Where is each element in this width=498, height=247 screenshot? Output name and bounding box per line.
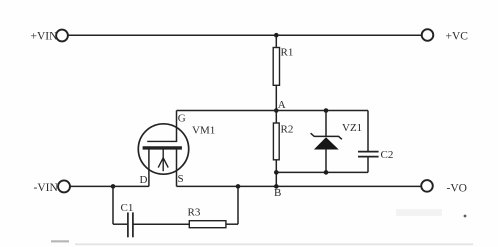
wire source lead	[176, 149, 178, 187]
svg-text:R3: R3	[188, 206, 201, 218]
svg-text:-VIN: -VIN	[34, 182, 59, 194]
wire C2 bottom lead	[367, 157, 369, 173]
caption remnant streak	[75, 243, 473, 245]
node A	[274, 108, 279, 113]
svg-text:-VO: -VO	[447, 182, 467, 194]
junction C1 branch	[111, 184, 116, 189]
svg-text:C2: C2	[381, 149, 394, 161]
wire R1 top lead	[275, 35, 277, 47]
capacitor C1	[128, 212, 133, 237]
svg-text:B: B	[274, 187, 281, 199]
wire C2 top lead	[367, 111, 369, 152]
zener VZ1 cathode bar	[311, 133, 342, 139]
wire C1 branch down	[112, 186, 114, 224]
wire gate rail	[177, 110, 369, 112]
svg-text:D: D	[140, 174, 148, 186]
resistor R3	[189, 221, 226, 228]
junction zener rail left	[274, 170, 279, 175]
svg-text:S: S	[178, 173, 184, 185]
svg-text:VM1: VM1	[192, 125, 215, 137]
wire R2 bottom lead	[275, 160, 277, 187]
wire top rail right	[276, 34, 421, 36]
terminal +VC	[422, 29, 434, 41]
svg-text:VZ1: VZ1	[342, 122, 362, 134]
wire C1 left lead	[113, 223, 127, 225]
svg-text:R2: R2	[281, 124, 294, 136]
wire R3 right lead	[226, 223, 238, 225]
svg-text:R1: R1	[281, 47, 294, 59]
wire gate lead	[176, 111, 178, 142]
junction VZ1 bottom	[324, 170, 329, 175]
transistor VM1 gate plate	[147, 140, 177, 142]
wire C1 to R3	[134, 223, 190, 225]
junction top rail / R1	[274, 33, 279, 38]
svg-text:A: A	[278, 99, 286, 111]
wire zener rail	[276, 171, 368, 173]
resistor R1	[273, 48, 279, 86]
node B	[274, 184, 279, 189]
caption remnant dash	[51, 240, 69, 242]
terminal -VO	[421, 180, 433, 192]
junction VZ1 top	[324, 108, 329, 113]
transistor VM1 body	[138, 124, 188, 174]
wire drain lead	[148, 149, 150, 187]
wire R1 bottom lead	[275, 85, 277, 110]
wire R3 branch up	[237, 186, 239, 224]
capacitor C2	[358, 152, 379, 157]
terminal +VIN	[56, 30, 68, 42]
svg-text:+VIN: +VIN	[31, 31, 59, 43]
transistor VM1 substrate arrow	[158, 149, 168, 171]
speck artifact	[464, 215, 467, 218]
terminal -VIN	[58, 180, 70, 192]
wire VZ1 bottom lead	[325, 150, 327, 173]
smudge artifact	[396, 209, 442, 216]
transistor VM1 channel bar	[143, 146, 182, 149]
svg-text:G: G	[178, 112, 186, 124]
zener VZ1 anode triangle	[314, 137, 339, 149]
svg-text:+VC: +VC	[446, 30, 469, 42]
junction R3 branch	[236, 184, 241, 189]
wire bottom rail left	[70, 185, 149, 187]
wire VZ1 top lead	[325, 111, 327, 137]
wire R2 top lead	[275, 111, 277, 124]
resistor R2	[273, 123, 279, 160]
wire top rail left	[68, 34, 276, 36]
wire bottom rail right	[177, 185, 422, 187]
svg-text:C1: C1	[121, 202, 134, 214]
